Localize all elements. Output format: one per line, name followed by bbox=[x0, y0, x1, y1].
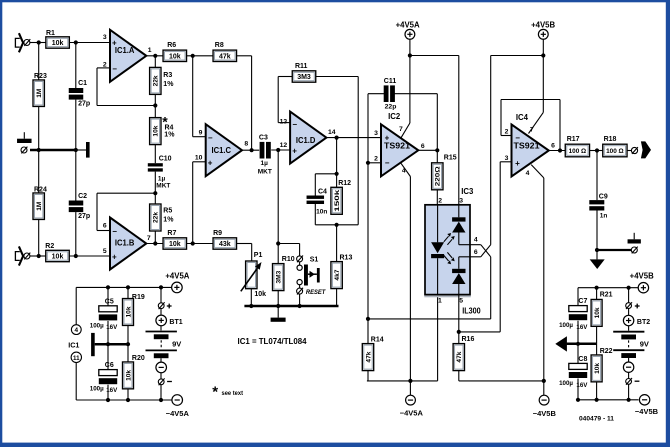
node rail R23 bbox=[37, 148, 41, 152]
wire IC1.A output bbox=[146, 55, 163, 57]
svg-text:R12: R12 bbox=[338, 180, 351, 187]
wire R22 bottom bbox=[596, 382, 598, 400]
wire branch to S1 bbox=[278, 243, 299, 245]
svg-text:R21: R21 bbox=[600, 291, 613, 298]
svg-text:3: 3 bbox=[103, 34, 107, 41]
rail -4V5A battery bbox=[76, 399, 172, 401]
photodiode top IC3 bbox=[458, 205, 460, 218]
wire IC1.C output bbox=[242, 149, 259, 151]
wire C4 bottom bbox=[314, 204, 316, 225]
node IC4 pin4 rail bbox=[542, 379, 546, 383]
node S1 gnd bbox=[298, 304, 302, 308]
capacitor C10 bbox=[148, 163, 163, 166]
chassis output bbox=[633, 233, 635, 240]
wire IC1 pin11 down bbox=[75, 363, 77, 401]
svg-text:IC3: IC3 bbox=[461, 187, 474, 196]
svg-text:1M: 1M bbox=[36, 88, 43, 98]
resistor R14 bbox=[362, 344, 373, 371]
svg-text:IC1.D: IC1.D bbox=[296, 135, 316, 145]
svg-text:6: 6 bbox=[421, 143, 425, 150]
wire to output sleeve plug bbox=[597, 249, 631, 251]
wire IC1.D output to IC2 pin3 bbox=[326, 137, 381, 139]
svg-text:10k: 10k bbox=[153, 125, 160, 136]
svg-text:150k: 150k bbox=[334, 189, 341, 211]
resistor R17 bbox=[565, 144, 589, 157]
node IC2 pin2 bbox=[366, 161, 370, 165]
wire C2 to input B line bbox=[75, 212, 77, 256]
wire C10 to R5 bbox=[154, 172, 156, 204]
wire C11 right bbox=[394, 93, 437, 95]
wire C8 bottom bbox=[577, 379, 579, 400]
node +4V5A bbox=[408, 53, 412, 57]
wire R13 to ground rail bbox=[336, 289, 338, 306]
capacitor C1 bbox=[69, 88, 84, 93]
wire C7 top bbox=[577, 288, 579, 306]
svg-text:220Ω: 220Ω bbox=[435, 166, 442, 186]
power -4V5B battery bbox=[639, 395, 649, 405]
svg-text:12: 12 bbox=[280, 142, 288, 149]
wire R20 bottom bbox=[127, 389, 129, 400]
svg-text:9: 9 bbox=[199, 129, 203, 136]
wire C7 bottom bbox=[577, 321, 579, 344]
input connector A bbox=[15, 38, 19, 47]
svg-text:BT1: BT1 bbox=[169, 319, 182, 326]
battery BT2 cells bbox=[613, 331, 644, 333]
svg-text:1µ: 1µ bbox=[261, 160, 269, 167]
resistor R1 bbox=[46, 37, 70, 48]
node -4V5A bbox=[408, 379, 412, 383]
svg-text:2: 2 bbox=[505, 129, 509, 136]
wire R4 to C10 bbox=[154, 145, 156, 164]
svg-text:4k7: 4k7 bbox=[334, 269, 341, 280]
wire +4V5B down bbox=[542, 39, 544, 55]
rail -4V5B battery bbox=[578, 399, 639, 401]
wire R8 to IC1.C output node bbox=[237, 55, 252, 57]
node IC1.A out bbox=[153, 54, 157, 58]
common input rail bbox=[30, 149, 76, 152]
svg-text:−: − bbox=[112, 227, 117, 236]
svg-text:C1: C1 bbox=[78, 80, 87, 87]
wire IC4 pin3 bbox=[500, 161, 511, 163]
wire IC2 pin2 node down to R14 bbox=[367, 163, 369, 343]
op-amp IC1.A bbox=[110, 30, 146, 82]
svg-text:RESET: RESET bbox=[306, 289, 326, 296]
node IC4 out bbox=[558, 148, 562, 152]
IC1 pin 4 circle bbox=[71, 325, 81, 335]
svg-text:R9: R9 bbox=[213, 230, 222, 237]
svg-text:1n: 1n bbox=[600, 213, 608, 220]
wire left branch IC1 power bbox=[75, 287, 77, 324]
resistor R15 bbox=[432, 163, 443, 190]
svg-text:R4: R4 bbox=[165, 124, 174, 131]
svg-text:5: 5 bbox=[103, 248, 107, 255]
svg-text:−4V5B: −4V5B bbox=[533, 409, 557, 418]
svg-text:100µ: 100µ bbox=[559, 380, 573, 387]
node R7 R9 bbox=[191, 241, 195, 245]
node R12 top bbox=[335, 172, 339, 176]
svg-text:10k: 10k bbox=[125, 370, 132, 381]
resistor R13 bbox=[331, 262, 342, 289]
svg-text:+: + bbox=[112, 39, 117, 48]
node R20 bottom bbox=[126, 398, 130, 402]
resistor R8 bbox=[213, 50, 237, 61]
wire R16 node to IC4 pin3 bbox=[459, 331, 500, 333]
svg-text:IC1: IC1 bbox=[68, 340, 79, 349]
svg-text:C2: C2 bbox=[78, 193, 87, 200]
node C6 bottom bbox=[106, 398, 110, 402]
LED IC3 bbox=[437, 205, 439, 243]
svg-text:10k: 10k bbox=[52, 40, 64, 47]
wire R21 bottom bbox=[596, 326, 598, 343]
wire photodiode feedback bbox=[368, 318, 491, 320]
svg-text:C7: C7 bbox=[578, 298, 587, 305]
svg-text:R18: R18 bbox=[604, 136, 617, 143]
svg-text:10k: 10k bbox=[169, 53, 181, 60]
plug output sleeve bbox=[631, 247, 637, 253]
LED arrows up bbox=[444, 236, 452, 245]
svg-text:S1: S1 bbox=[310, 257, 319, 264]
capacitor C2 bbox=[69, 201, 84, 206]
rail +4V5B battery bbox=[578, 287, 638, 289]
node input A bbox=[37, 40, 41, 44]
svg-text:+: + bbox=[385, 134, 390, 143]
node C5 top bbox=[106, 285, 110, 289]
wire IC1.A pin2 feedback bbox=[97, 67, 110, 69]
svg-text:1M: 1M bbox=[36, 201, 43, 211]
screen bar input bbox=[86, 142, 90, 158]
mid rail B bbox=[567, 343, 597, 346]
node C7 C8 mid bbox=[576, 342, 580, 346]
svg-text:−: − bbox=[292, 120, 297, 129]
svg-text:+4V5B: +4V5B bbox=[630, 272, 654, 281]
wire P1 to ground rail bbox=[250, 289, 252, 306]
svg-text:IC4: IC4 bbox=[516, 113, 529, 122]
svg-text:TS921: TS921 bbox=[384, 142, 411, 151]
svg-text:IC2: IC2 bbox=[388, 112, 401, 121]
power -4V5A bbox=[409, 381, 411, 395]
wire C5 top bbox=[107, 287, 109, 305]
node IC2 out bbox=[435, 148, 439, 152]
wire pin12 node down bbox=[277, 150, 279, 264]
wire C3 to IC1.D pin12 bbox=[271, 149, 290, 151]
capacitor C4 bbox=[307, 196, 325, 199]
crossover pins 4 6 bbox=[481, 245, 491, 257]
svg-text:100µ: 100µ bbox=[90, 322, 104, 329]
svg-text:2: 2 bbox=[374, 155, 378, 162]
node rail C1 bbox=[74, 148, 78, 152]
plug common rail bbox=[21, 147, 27, 153]
resistor R24 bbox=[33, 193, 44, 220]
ground rail S1 bbox=[244, 305, 338, 308]
resistor R3 bbox=[150, 67, 161, 94]
rail -4V5A bbox=[367, 380, 438, 382]
svg-text:3M3: 3M3 bbox=[297, 74, 311, 81]
wire IC4 output bbox=[549, 150, 566, 152]
svg-text:+: + bbox=[208, 158, 213, 167]
wire input A to R1 bbox=[30, 42, 46, 44]
wire R11 right down bbox=[316, 76, 358, 78]
node C1 top bbox=[74, 40, 78, 44]
ground symbol bbox=[277, 306, 279, 318]
svg-text:R11: R11 bbox=[295, 63, 308, 70]
svg-text:1%: 1% bbox=[163, 81, 174, 88]
wire C8 top bbox=[577, 344, 579, 364]
svg-text:27p: 27p bbox=[78, 213, 90, 220]
svg-text:10n: 10n bbox=[316, 209, 327, 216]
wire R9 to P1 bbox=[237, 243, 252, 245]
node R5 out bbox=[153, 241, 157, 245]
wire IC1.D pin13 to R11 bbox=[278, 122, 290, 124]
switch S1 bbox=[297, 256, 303, 262]
wire to -4V5B power bbox=[543, 381, 545, 395]
wire IC4 pin2 feedback bbox=[501, 135, 512, 137]
svg-text:8: 8 bbox=[244, 140, 248, 147]
rail -4V5B amp bbox=[459, 380, 544, 382]
wire R10 to ground rail bbox=[277, 290, 279, 306]
svg-text:2: 2 bbox=[103, 61, 107, 68]
svg-text:IC1.A: IC1.A bbox=[115, 45, 135, 55]
svg-text:C8: C8 bbox=[578, 356, 587, 363]
P1 wiper arrow bbox=[241, 268, 257, 291]
LED arrows down bbox=[444, 252, 452, 261]
node IC1.D out bbox=[335, 136, 339, 140]
wire R15 to IC3 pin2 bbox=[436, 190, 438, 205]
node C5 C6 mid bbox=[106, 342, 110, 346]
wire R2 to IC1.B pin5 bbox=[69, 255, 110, 257]
node R19 top bbox=[126, 285, 130, 289]
wire IC3 pin5 down bbox=[458, 295, 460, 344]
node BT1 top bbox=[159, 285, 163, 289]
svg-text:R19: R19 bbox=[132, 294, 145, 301]
potentiometer P1 bbox=[246, 261, 257, 289]
node BT2 bottom bbox=[627, 398, 631, 402]
node R16 top bbox=[457, 330, 461, 334]
svg-text:R22: R22 bbox=[600, 348, 613, 355]
svg-text:10k: 10k bbox=[52, 254, 64, 261]
svg-text:4: 4 bbox=[474, 237, 478, 244]
svg-text:9V: 9V bbox=[172, 339, 181, 348]
resistor R18 bbox=[603, 144, 627, 157]
wire R17 to R18 bbox=[590, 150, 603, 152]
wire +4V5A down bbox=[409, 39, 411, 55]
svg-text:R7: R7 bbox=[167, 230, 176, 237]
wire feedback IC1.B pin6 bbox=[97, 192, 155, 194]
svg-text:5: 5 bbox=[459, 298, 463, 305]
wire IC3 pin1 to rail bbox=[437, 295, 439, 381]
node input B bbox=[37, 254, 41, 258]
screen bar mid A bbox=[91, 333, 95, 356]
svg-text:C11: C11 bbox=[384, 78, 397, 85]
mid rail A bbox=[95, 343, 128, 346]
node R22 bottom bbox=[595, 398, 599, 402]
svg-text:see text: see text bbox=[222, 390, 244, 397]
svg-text:R10: R10 bbox=[282, 256, 295, 263]
svg-text:3: 3 bbox=[374, 130, 378, 137]
svg-text:7: 7 bbox=[399, 126, 403, 133]
svg-text:IC1 = TL074/TL084: IC1 = TL074/TL084 bbox=[238, 337, 307, 346]
svg-text:22k: 22k bbox=[153, 75, 160, 86]
wire C9 down bbox=[596, 151, 598, 201]
svg-text:10k: 10k bbox=[594, 363, 601, 374]
svg-text:4: 4 bbox=[75, 327, 79, 334]
power -4V5B amp bbox=[539, 395, 549, 405]
svg-text:10: 10 bbox=[195, 154, 203, 161]
svg-text:+: + bbox=[515, 159, 520, 168]
wire IC4 pin4 bbox=[531, 165, 544, 178]
ground chassis input bbox=[23, 132, 25, 139]
node +4V5B bbox=[541, 53, 545, 57]
power -4V5A battery bbox=[172, 395, 183, 406]
wire R3 top bbox=[154, 56, 156, 68]
wire R24 to input B line bbox=[38, 220, 40, 257]
svg-text:+4V5A: +4V5A bbox=[396, 21, 420, 30]
svg-text:IC1.B: IC1.B bbox=[115, 238, 135, 248]
wire R23 to common rail bbox=[38, 107, 40, 151]
svg-text:27p: 27p bbox=[78, 100, 90, 107]
svg-text:−4V5A: −4V5A bbox=[166, 409, 190, 418]
svg-text:7: 7 bbox=[147, 235, 151, 242]
svg-text:R24: R24 bbox=[34, 186, 47, 193]
svg-text:*: * bbox=[212, 384, 218, 401]
wire IC2 pin2 bbox=[368, 162, 381, 164]
node R12 R13 bbox=[335, 223, 339, 227]
resistor R4 bbox=[150, 118, 161, 145]
svg-text:BT2: BT2 bbox=[637, 319, 650, 326]
resistor R2 bbox=[46, 250, 70, 261]
svg-text:1%: 1% bbox=[163, 217, 174, 224]
wire +4V5A to IC3 pin3 bbox=[410, 55, 459, 57]
wire IC1.C pin9 bbox=[193, 136, 206, 138]
svg-text:R5: R5 bbox=[163, 208, 172, 215]
svg-text:10k: 10k bbox=[254, 291, 266, 298]
svg-text:10k: 10k bbox=[125, 306, 132, 317]
output arrow bbox=[641, 141, 651, 158]
node C10 R5 feedback IC1.B bbox=[153, 191, 157, 195]
svg-text:R6: R6 bbox=[167, 42, 176, 49]
svg-text:1: 1 bbox=[148, 47, 152, 54]
svg-text:10k: 10k bbox=[594, 307, 601, 318]
wire to C4 top bbox=[315, 173, 336, 175]
node R10 gnd bbox=[276, 304, 280, 308]
svg-text:2: 2 bbox=[438, 198, 442, 205]
node C8 bottom bbox=[576, 398, 580, 402]
svg-text:R3: R3 bbox=[163, 72, 172, 79]
svg-text:9V: 9V bbox=[640, 339, 649, 348]
resistor R6 bbox=[163, 50, 187, 61]
resistor R7 bbox=[163, 238, 187, 249]
resistor R23 bbox=[33, 80, 44, 107]
wire IC2 pin7 supply bbox=[409, 56, 411, 124]
wire R7 to R9 bbox=[187, 243, 213, 245]
wire C5 bottom bbox=[107, 321, 109, 344]
node R3 R4 feedback bbox=[153, 103, 157, 107]
node ground B bbox=[595, 248, 599, 252]
svg-text:C10: C10 bbox=[159, 155, 172, 162]
battery BT2 chain bbox=[628, 288, 630, 303]
wire IC1.B output bbox=[146, 243, 163, 245]
border frame bbox=[0, 0, 670, 2]
battery BT1 cells bbox=[146, 331, 177, 333]
svg-text:+4V5B: +4V5B bbox=[531, 21, 555, 30]
svg-text:1%: 1% bbox=[164, 131, 175, 138]
resistor R20 bbox=[127, 344, 129, 362]
svg-text:IL300: IL300 bbox=[462, 307, 481, 316]
svg-text:1: 1 bbox=[438, 298, 442, 305]
svg-text:+4V5A: +4V5A bbox=[165, 271, 189, 280]
resistor R5 bbox=[150, 204, 161, 231]
wire IC2 output bbox=[418, 149, 437, 151]
resistor R21 bbox=[596, 288, 598, 300]
wire IC2 pin4 bbox=[401, 163, 411, 176]
resistor R10 bbox=[273, 264, 284, 291]
node R19 R20 mid bbox=[126, 342, 130, 346]
battery BT1 chain bbox=[160, 287, 162, 302]
wire to R15 bbox=[436, 150, 438, 163]
svg-text:R20: R20 bbox=[132, 355, 145, 362]
wire C11 left bbox=[368, 93, 384, 95]
svg-text:6: 6 bbox=[103, 222, 107, 229]
resistor R9 bbox=[213, 238, 237, 249]
node feedback photodiode bbox=[366, 317, 370, 321]
resistor R19 bbox=[127, 287, 129, 298]
wire R18 to output plug bbox=[627, 150, 632, 152]
wire C6 bottom bbox=[107, 385, 109, 400]
wire node A down to R23 bbox=[38, 43, 40, 81]
svg-text:6: 6 bbox=[551, 143, 555, 150]
svg-text:−: − bbox=[208, 133, 213, 142]
node C9 top bbox=[595, 148, 599, 152]
wire R16 to -4V5B rail bbox=[458, 371, 460, 381]
wire input B to R2 bbox=[30, 255, 46, 257]
svg-text:040479 - 11: 040479 - 11 bbox=[579, 415, 614, 422]
svg-text:+: + bbox=[292, 146, 297, 155]
wire C6 top bbox=[107, 344, 109, 369]
svg-text:+: + bbox=[112, 253, 117, 262]
svg-text:R13: R13 bbox=[340, 255, 353, 262]
wire rail down to R24 bbox=[38, 150, 40, 193]
svg-text:22k: 22k bbox=[153, 212, 160, 223]
svg-text:R23: R23 bbox=[34, 73, 47, 80]
svg-text:47k: 47k bbox=[219, 53, 231, 60]
svg-text:14: 14 bbox=[328, 129, 336, 136]
wire down to R13 bbox=[336, 225, 338, 262]
capacitor C9 bbox=[589, 200, 604, 204]
svg-text:10k: 10k bbox=[169, 241, 181, 248]
wire C1 to common rail bbox=[75, 100, 77, 150]
wire R19 bottom bbox=[127, 326, 129, 345]
ground arrow B bbox=[596, 250, 598, 259]
wire R5 to IC1.B output bbox=[154, 231, 156, 244]
svg-text:43k: 43k bbox=[219, 241, 231, 248]
svg-text:R15: R15 bbox=[444, 154, 457, 161]
node BT2 top bbox=[627, 286, 631, 290]
wire R6 to R8 bbox=[187, 55, 213, 57]
svg-text:6: 6 bbox=[474, 249, 478, 256]
rail +4V5A battery bbox=[76, 286, 171, 288]
svg-text:R17: R17 bbox=[567, 136, 580, 143]
IC1 pin 11 circle bbox=[71, 352, 81, 362]
svg-text:C6: C6 bbox=[105, 362, 114, 369]
output plug bbox=[631, 147, 637, 153]
node C2 bottom bbox=[74, 254, 78, 258]
svg-text:11: 11 bbox=[73, 355, 80, 362]
svg-text:4: 4 bbox=[526, 170, 530, 177]
capacitor C7 bbox=[569, 306, 587, 312]
input connector B bbox=[15, 252, 19, 261]
photodiode bottom IC3 bbox=[459, 256, 481, 258]
wire rail down to C2 bbox=[75, 150, 77, 201]
svg-text:47k: 47k bbox=[456, 351, 463, 362]
